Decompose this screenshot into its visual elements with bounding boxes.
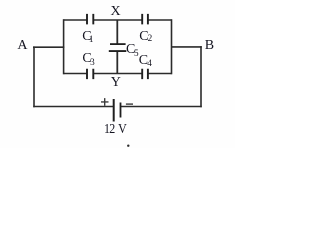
battery positive long plate [113,99,115,122]
capacitor C5 plates (horizontal) [110,43,126,45]
label C3 [82,52,91,66]
node label X [111,5,121,19]
node label Y [111,76,121,90]
battery minus sign [126,103,133,105]
capacitor C1 plates [87,14,93,25]
battery plus sign [101,98,109,106]
wire: top branch left segment (left bus to C1) [64,19,87,21]
wire: bottom rail right (battery - plate to right corner) [121,106,202,108]
battery value label 12 V [104,122,126,136]
wire: right bus to node B corner [172,46,202,48]
wire: middle vertical from C5 bottom plate down to node Y [116,51,118,73]
capacitor C4 plates [142,69,148,79]
wire: bottom branch right segment (C4 to right bus) [148,73,172,75]
wire: bottom branch left segment (left bus to C3) [64,73,87,75]
node label A [17,39,27,53]
label C5 [126,43,135,57]
battery negative short plate [120,103,122,118]
wire: left bus vertical [63,19,65,74]
wire: node A lead to left bus [33,46,64,48]
wire: right bus vertical [171,19,173,74]
wire: middle vertical from node X down to C5 top plate [116,20,118,44]
wire: bottom branch middle segment (C3 to C4 through node Y) [93,73,142,75]
capacitor C3 plates [87,69,93,79]
capacitor C2 plates [142,14,148,25]
wire: top branch right segment (C2 to right bus) [148,19,172,21]
stray period dot bottom centre [127,145,129,147]
wire: bottom rail left (to battery + plate) [33,106,113,108]
node label B [205,39,214,53]
wire: top branch middle segment (C1 to C2 through node X) [93,19,142,21]
wire: right outer vertical down from B lead [200,46,202,107]
wire: left outer vertical down from A lead [33,46,35,107]
label C4 [139,54,148,68]
label C2 [139,30,148,44]
label C1 [82,30,91,44]
